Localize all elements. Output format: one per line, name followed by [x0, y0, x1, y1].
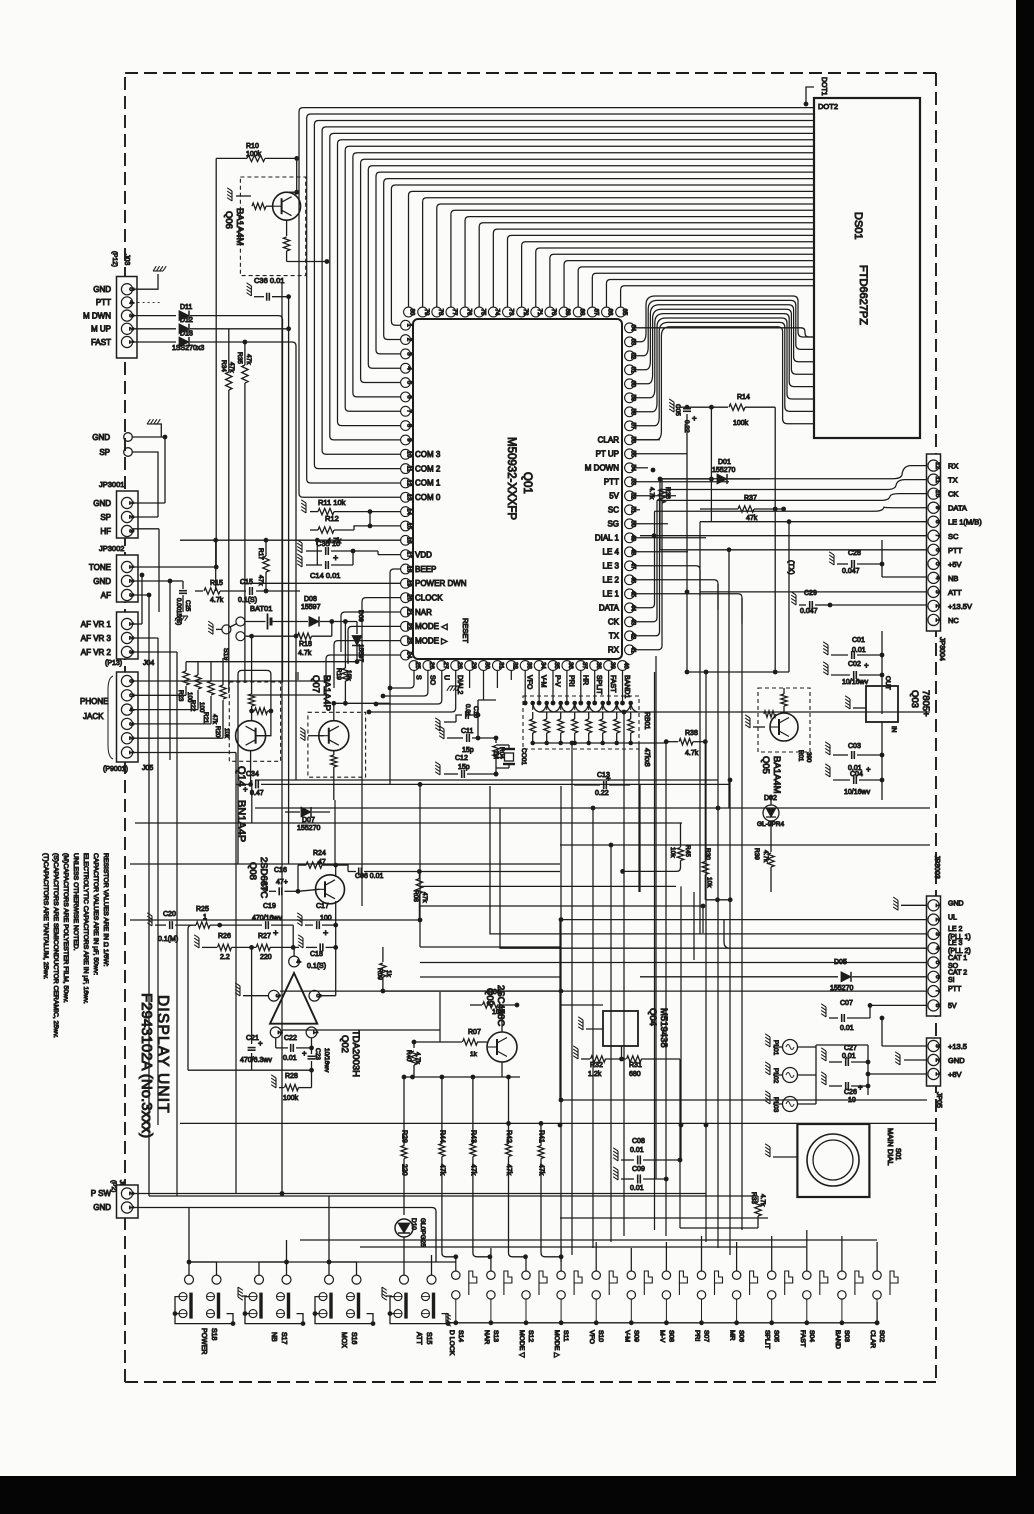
wire S18 terminals up: [188, 1262, 190, 1275]
ground Q06 base: [227, 188, 232, 201]
wire J04 pins: [133, 623, 142, 625]
svg-text:D12: D12: [180, 317, 193, 324]
svg-text:GND: GND: [93, 1203, 111, 1212]
svg-text:65: 65: [621, 309, 627, 316]
svg-text:4: 4: [934, 576, 941, 580]
svg-text:+: +: [858, 1083, 863, 1092]
wire C19 down to R27: [292, 925, 294, 947]
svg-text:C22: C22: [284, 1035, 297, 1042]
svg-text:0.047: 0.047: [842, 568, 860, 575]
svg-text:14: 14: [406, 508, 412, 515]
svg-text:MR: MR: [729, 1330, 736, 1341]
wire maze vertical group B: [158, 282, 742, 1262]
wire vertical from C36 node down: [288, 297, 290, 864]
svg-text:UNLESS OTHERWISE NOTED.: UNLESS OTHERWISE NOTED.: [72, 853, 79, 951]
svg-text:AF VR 3: AF VR 3: [81, 634, 112, 643]
wire Q02 pin5: [320, 995, 336, 997]
svg-text:75: 75: [479, 309, 485, 316]
svg-text:GND: GND: [93, 499, 111, 508]
resistor R35 47k: [242, 365, 248, 383]
wire rail riser left: [188, 925, 196, 1070]
svg-text:57: 57: [630, 422, 636, 429]
svg-text:S: S: [415, 675, 422, 680]
svg-text:S06: S06: [738, 1330, 745, 1342]
wire JP3002 pins: [133, 566, 217, 568]
ground at J03 pin5: [133, 274, 158, 289]
svg-text:SC: SC: [608, 506, 619, 515]
Q05 collector resistor: [781, 694, 787, 706]
svg-text:R34: R34: [220, 360, 227, 372]
svg-text:R24: R24: [313, 850, 326, 857]
ground pin32 stub: [447, 686, 460, 691]
svg-text:CLAR: CLAR: [598, 436, 620, 445]
wire bus from Q01 right pins 63-57 to DS01 lower pins: [634, 296, 814, 440]
svg-text:SPLIT: SPLIT: [595, 675, 602, 695]
wire left vertical x165: [164, 437, 166, 503]
Q14 emitter wire: [250, 751, 252, 785]
svg-text:470/16wv: 470/16wv: [252, 915, 282, 922]
svg-text:UL: UL: [948, 915, 957, 922]
switch S18 POWER: [185, 1275, 194, 1284]
svg-text:R26: R26: [218, 933, 231, 940]
display DS01 FTD6627PZ: [814, 98, 920, 438]
wire R19 bottom row to Q07 collector: [334, 702, 390, 704]
svg-text:MAIN DIAL: MAIN DIAL: [886, 1128, 895, 1166]
wire emitter bus: [402, 1076, 520, 1078]
ground Q04: [578, 1017, 583, 1030]
svg-text:(M)CAPACITORS ARE POLYESTER FI: (M)CAPACITORS ARE POLYESTER FILM, 50wv.: [62, 853, 69, 1003]
svg-text:10k: 10k: [669, 847, 676, 858]
wire pin24 join: [252, 694, 326, 696]
LED D10 GL0PG25: [395, 1219, 413, 1237]
svg-text:71: 71: [536, 309, 542, 316]
svg-text:LE 3: LE 3: [948, 940, 963, 947]
ground Q07 base: [300, 728, 305, 741]
svg-text:R17: R17: [257, 548, 264, 560]
wire node bus y672: [687, 671, 789, 673]
Q05 base resistor: [764, 711, 776, 717]
svg-text:R10: R10: [246, 143, 259, 150]
Q01 bottom pin stub labels: [415, 675, 631, 698]
ground JP3003 pin1: [893, 897, 898, 910]
svg-text:10/16wv: 10/16wv: [842, 679, 869, 686]
svg-text:24: 24: [406, 652, 412, 659]
svg-text:NC: NC: [948, 616, 959, 625]
svg-text:C25: C25: [184, 600, 191, 612]
svg-text:11: 11: [934, 476, 941, 483]
svg-text:FAST: FAST: [799, 1330, 806, 1347]
ground switch bus left: [446, 1313, 451, 1326]
diode D13: [133, 341, 176, 343]
wire JP05 pin3: [882, 1045, 927, 1047]
svg-text:R21: R21: [202, 712, 209, 724]
capacitor C14 0.01: [297, 554, 302, 567]
Q01 bottom pin row circles 25-40: [409, 661, 629, 671]
svg-text:C21: C21: [246, 1035, 259, 1042]
svg-text:MODE ▷: MODE ▷: [415, 636, 448, 645]
svg-text:BAND1: BAND1: [623, 675, 630, 698]
svg-text:PTT: PTT: [604, 478, 619, 487]
svg-text:C20: C20: [163, 911, 176, 918]
svg-text:0.22: 0.22: [595, 790, 609, 797]
svg-text:SP: SP: [99, 448, 110, 457]
svg-text:GND: GND: [948, 1056, 965, 1065]
svg-text:ATT: ATT: [948, 588, 962, 597]
regulator Q03 7805: [866, 686, 898, 722]
svg-text:8: 8: [934, 1004, 941, 1008]
wire S17 terminals up: [259, 1262, 287, 1275]
svg-text:TX: TX: [609, 632, 620, 641]
svg-text:10/16wv: 10/16wv: [323, 1048, 330, 1073]
svg-text:78: 78: [437, 309, 443, 316]
svg-text:POWER DWN: POWER DWN: [415, 579, 467, 588]
svg-text:10: 10: [934, 490, 941, 498]
connector JP05: [927, 1038, 941, 1086]
svg-text:18: 18: [406, 566, 412, 573]
RB01 top joining curves: [533, 703, 638, 712]
wire crystal node: [478, 699, 496, 701]
ground S19: [208, 621, 213, 634]
svg-text:SC: SC: [948, 532, 959, 541]
svg-text:220: 220: [260, 954, 272, 961]
transistor Q05 BA1A4M: [758, 688, 810, 752]
ic Q04 MS19438: [603, 1011, 638, 1046]
svg-text:M519438: M519438: [658, 1008, 669, 1048]
svg-text:47k: 47k: [211, 714, 218, 725]
svg-text:C36 0.01: C36 0.01: [254, 276, 284, 285]
wire JP3001 pins: [133, 502, 165, 504]
wire Q14 base net elbow: [238, 670, 271, 864]
svg-text:7805+: 7805+: [920, 690, 931, 717]
svg-text:70: 70: [550, 309, 556, 316]
svg-text:16: 16: [406, 537, 412, 544]
Q01 left pin row circles 1-24: [401, 320, 412, 660]
svg-text:1: 1: [934, 618, 941, 622]
svg-text:3: 3: [934, 590, 941, 594]
wire +8V trunk to lamps: [816, 1044, 868, 1046]
svg-text:R20: R20: [214, 726, 221, 738]
svg-text:LE 2: LE 2: [603, 576, 620, 585]
svg-text:AF: AF: [101, 591, 111, 600]
svg-text:79: 79: [423, 309, 429, 316]
svg-text:36: 36: [567, 662, 573, 669]
svg-text:SP: SP: [100, 513, 111, 522]
svg-text:61: 61: [630, 366, 636, 373]
svg-text:0.01: 0.01: [630, 1185, 644, 1192]
svg-text:LE 3: LE 3: [603, 562, 620, 571]
ground Q03: [845, 696, 850, 709]
connector J03 (P12): [117, 277, 138, 359]
wire bus y661.7: [186, 661, 357, 663]
svg-text:S01: S01: [894, 1148, 901, 1161]
wire J05 pin6: [133, 680, 330, 682]
svg-text:+: +: [323, 928, 328, 938]
wire JP05 pin1 +8V: [868, 1073, 927, 1075]
svg-text:Q07: Q07: [310, 675, 321, 693]
svg-text:M-V: M-V: [658, 1330, 665, 1343]
svg-text:+: +: [864, 661, 869, 670]
switch S08 M-V: [662, 1271, 670, 1279]
svg-text:4.7k: 4.7k: [298, 650, 312, 657]
svg-text:73: 73: [508, 309, 514, 316]
wire JP3004 SC: [640, 535, 927, 537]
svg-text:470/6.3wv: 470/6.3wv: [240, 1057, 272, 1064]
svg-text:5: 5: [934, 562, 941, 566]
diode D11 1SS270: [133, 315, 176, 317]
wire Q03 in: [881, 722, 883, 780]
wire R14 right down: [774, 407, 776, 672]
svg-text:32: 32: [512, 662, 518, 669]
svg-text:SO: SO: [428, 675, 435, 686]
svg-text:4.7k: 4.7k: [685, 750, 699, 757]
svg-text:S04: S04: [808, 1330, 815, 1342]
svg-text:LE 1: LE 1: [603, 590, 620, 599]
svg-text:5V: 5V: [609, 492, 619, 501]
switch S17 NB: [255, 1275, 264, 1284]
svg-text:10/16wv: 10/16wv: [844, 789, 871, 796]
wire drop x317: [316, 540, 318, 565]
svg-text:C28: C28: [848, 550, 861, 557]
svg-text:BAT01: BAT01: [250, 604, 272, 613]
wire RB01 bottom bus: [533, 742, 639, 744]
svg-text:11: 11: [406, 465, 412, 472]
svg-text:PTT: PTT: [948, 546, 963, 555]
svg-text:M DWN: M DWN: [83, 311, 111, 320]
svg-text:C12: C12: [455, 755, 468, 762]
svg-text:S17: S17: [280, 1332, 287, 1345]
svg-text:37: 37: [581, 662, 587, 669]
svg-text:2: 2: [934, 1058, 941, 1062]
svg-text:OUT: OUT: [884, 676, 891, 690]
switch S12 MODE ▽: [522, 1271, 530, 1279]
svg-text:MODE ◁: MODE ◁: [415, 622, 448, 631]
svg-text:COM 2: COM 2: [415, 464, 441, 473]
svg-text:D05: D05: [834, 959, 847, 966]
svg-text:21: 21: [406, 609, 412, 616]
svg-text:J05: J05: [142, 765, 153, 772]
svg-text:67: 67: [593, 309, 599, 316]
svg-text:P SW: P SW: [91, 1189, 112, 1198]
svg-text:RB01: RB01: [643, 712, 650, 730]
switch S15 ATT: [400, 1275, 409, 1284]
svg-text:100: 100: [320, 915, 332, 922]
switch S05 SPLIT: [768, 1271, 776, 1279]
svg-text:BA1A4M: BA1A4M: [234, 208, 245, 246]
svg-text:30: 30: [484, 662, 490, 669]
svg-text:V-M: V-M: [540, 675, 547, 688]
ground JP05 pin2: [895, 1052, 900, 1065]
svg-text:CAT 2: CAT 2: [948, 970, 967, 977]
wires IC bottom pins down: [369, 670, 511, 712]
svg-text:BAND: BAND: [834, 1330, 841, 1349]
svg-text:0.0015(S): 0.0015(S): [175, 598, 182, 625]
svg-text:R38: R38: [685, 730, 698, 737]
Q01 left inner pin labels: [415, 450, 467, 645]
svg-text:39: 39: [609, 662, 615, 669]
svg-text:PTT: PTT: [96, 298, 111, 307]
switch S02 CLAR: [873, 1271, 881, 1279]
svg-text:CK: CK: [608, 618, 620, 627]
svg-text:R22: R22: [189, 700, 196, 712]
svg-text:S14: S14: [457, 1330, 464, 1342]
svg-text:R35: R35: [236, 352, 243, 364]
wires small switches up: [456, 1230, 877, 1271]
svg-text:76: 76: [465, 309, 471, 316]
Q14 base wire: [256, 711, 271, 736]
svg-text:NB: NB: [270, 1332, 277, 1342]
svg-text:22: 22: [406, 623, 412, 630]
svg-text:R08: R08: [412, 890, 419, 902]
wire Q09 collector: [501, 1005, 503, 1032]
svg-text:C18: C18: [310, 951, 323, 958]
wires Q01 right pins to right area: [634, 440, 742, 650]
svg-text:13: 13: [406, 494, 412, 501]
svg-text:100k: 100k: [733, 420, 749, 427]
svg-text:S12: S12: [527, 1330, 534, 1342]
svg-text:NAR: NAR: [415, 608, 432, 617]
switch S03 BAND: [838, 1271, 846, 1279]
wire switch common bus: [446, 1322, 877, 1324]
svg-text:6: 6: [934, 975, 941, 979]
wire JP3004 PTT: [660, 549, 927, 551]
svg-text:SG: SG: [607, 520, 619, 529]
svg-text:62: 62: [630, 352, 636, 359]
svg-text:15p: 15p: [462, 747, 474, 754]
Q01 right inner pin labels: [585, 436, 620, 655]
svg-text:680: 680: [629, 1071, 641, 1078]
scanner black strip right edge: [1016, 0, 1034, 1514]
wire bus from Q01 left pins 1-13 up to DS01: [299, 108, 814, 498]
svg-text:R07: R07: [468, 1029, 481, 1036]
switch S13 NAR: [487, 1271, 495, 1279]
svg-text:PT UP: PT UP: [596, 450, 619, 459]
svg-text:Q02: Q02: [339, 1035, 350, 1053]
svg-text:R15: R15: [210, 580, 223, 587]
microcontroller U Q01 M50932-XXXFP body: [413, 319, 622, 659]
svg-text:4.7k: 4.7k: [762, 850, 769, 863]
Q01 top pin row circles 80-65: [404, 307, 627, 317]
svg-text:2: 2: [934, 604, 941, 608]
svg-text:+: +: [273, 928, 278, 938]
switch S06 MR: [732, 1271, 740, 1279]
svg-text:D09: D09: [357, 610, 364, 622]
svg-text:4.7k: 4.7k: [648, 487, 655, 500]
svg-text:S02: S02: [878, 1330, 885, 1342]
wire J02 pin2: [133, 1193, 706, 1195]
wire C35 to VDD pin17: [377, 551, 379, 555]
wire JP3003 pin7 PTT: [280, 990, 927, 992]
svg-text:R27: R27: [258, 933, 271, 940]
svg-text:BN1A4P: BN1A4P: [235, 800, 247, 842]
svg-text:C34: C34: [246, 771, 259, 778]
wire bus from Q01 top pins 80-65 up to DS01: [409, 191, 815, 307]
wire S15 terminals up: [403, 1262, 405, 1275]
svg-text:10: 10: [406, 451, 412, 458]
svg-text:1: 1: [934, 903, 941, 907]
svg-text:Q05: Q05: [760, 756, 771, 774]
svg-text:4: 4: [294, 960, 301, 964]
svg-text:4.7k: 4.7k: [210, 597, 224, 604]
ground stub top: [155, 424, 161, 437]
svg-text:GND: GND: [93, 577, 111, 586]
transistor Q14 BN1A4P: [229, 682, 280, 761]
svg-text:COM 3: COM 3: [415, 450, 441, 459]
svg-text:R11 10k: R11 10k: [318, 498, 346, 507]
svg-text:Q06: Q06: [223, 211, 234, 229]
svg-text:3: 3: [934, 1044, 941, 1048]
svg-text:NAR: NAR: [483, 1330, 490, 1344]
svg-text:MODE △: MODE △: [553, 1330, 560, 1358]
wire pin16 row: [180, 539, 401, 541]
resistor network RB01 47kx8: [523, 696, 639, 749]
svg-text:D08: D08: [304, 596, 317, 603]
svg-text:9: 9: [934, 506, 941, 510]
svg-text:C05: C05: [674, 404, 681, 416]
wire rail y1070: [188, 1069, 312, 1071]
connector JP3004: [927, 454, 941, 631]
svg-text:J04: J04: [143, 660, 154, 667]
scanner black strip bottom edge: [0, 1476, 1034, 1514]
transistor Q09 2SC458C: [487, 1032, 517, 1062]
svg-text:BEEP: BEEP: [415, 565, 436, 574]
wire J02 pin1: [133, 1208, 189, 1263]
svg-text:C03: C03: [848, 743, 861, 750]
svg-text:+8V: +8V: [948, 1070, 962, 1079]
svg-text:C14 0.01: C14 0.01: [310, 571, 340, 580]
resistor R21 47k: [210, 696, 212, 724]
svg-text:155270: 155270: [297, 825, 320, 832]
svg-text:C15: C15: [240, 579, 253, 586]
svg-text:28: 28: [456, 662, 462, 669]
svg-text:C07: C07: [840, 1000, 853, 1007]
svg-text:R14: R14: [737, 394, 750, 401]
svg-text:33: 33: [525, 662, 531, 669]
svg-text:59: 59: [630, 394, 636, 401]
transistor Q06 BA1A4M: [240, 177, 305, 276]
svg-text:RX: RX: [948, 462, 958, 471]
svg-text:SI: SI: [948, 977, 955, 984]
wire J03 ptt dotted: [133, 301, 160, 303]
svg-text:V-M: V-M: [623, 1330, 630, 1342]
resistor Q06 emitter: [286, 220, 288, 236]
svg-text:0.047: 0.047: [800, 608, 818, 615]
svg-text:68: 68: [578, 309, 584, 316]
svg-text:C02: C02: [848, 661, 861, 668]
notes text block: [42, 853, 109, 1038]
svg-text:2SD667C: 2SD667C: [258, 857, 269, 898]
svg-text:S13: S13: [492, 1330, 499, 1342]
svg-text:(P12): (P12): [111, 251, 118, 267]
svg-text:47k: 47k: [421, 892, 428, 903]
svg-text:0.1(S): 0.1(S): [307, 963, 326, 970]
svg-text:+13.5V: +13.5V: [948, 602, 972, 611]
svg-text:TDA2003H: TDA2003H: [350, 1030, 361, 1077]
connector J05 phone jack: [117, 672, 139, 762]
svg-text:RX: RX: [608, 646, 620, 655]
diode D12: [133, 328, 176, 330]
svg-text:0.01: 0.01: [630, 1147, 644, 1154]
svg-text:MODE ▽: MODE ▽: [518, 1330, 525, 1358]
resistor R34 47k: [226, 372, 232, 390]
svg-text:RESISTOR VALUES ARE IN Ω 1/6W:: RESISTOR VALUES ARE IN Ω 1/6W:: [102, 853, 109, 967]
svg-text:S11: S11: [562, 1330, 569, 1342]
switch S11 MODE △: [557, 1271, 565, 1279]
svg-text:47kx8: 47kx8: [643, 748, 650, 767]
svg-text:DOT2: DOT2: [818, 102, 838, 111]
svg-text:20: 20: [406, 594, 412, 601]
wire Q02 pin4 top: [293, 947, 295, 956]
svg-text:S05: S05: [773, 1330, 780, 1342]
